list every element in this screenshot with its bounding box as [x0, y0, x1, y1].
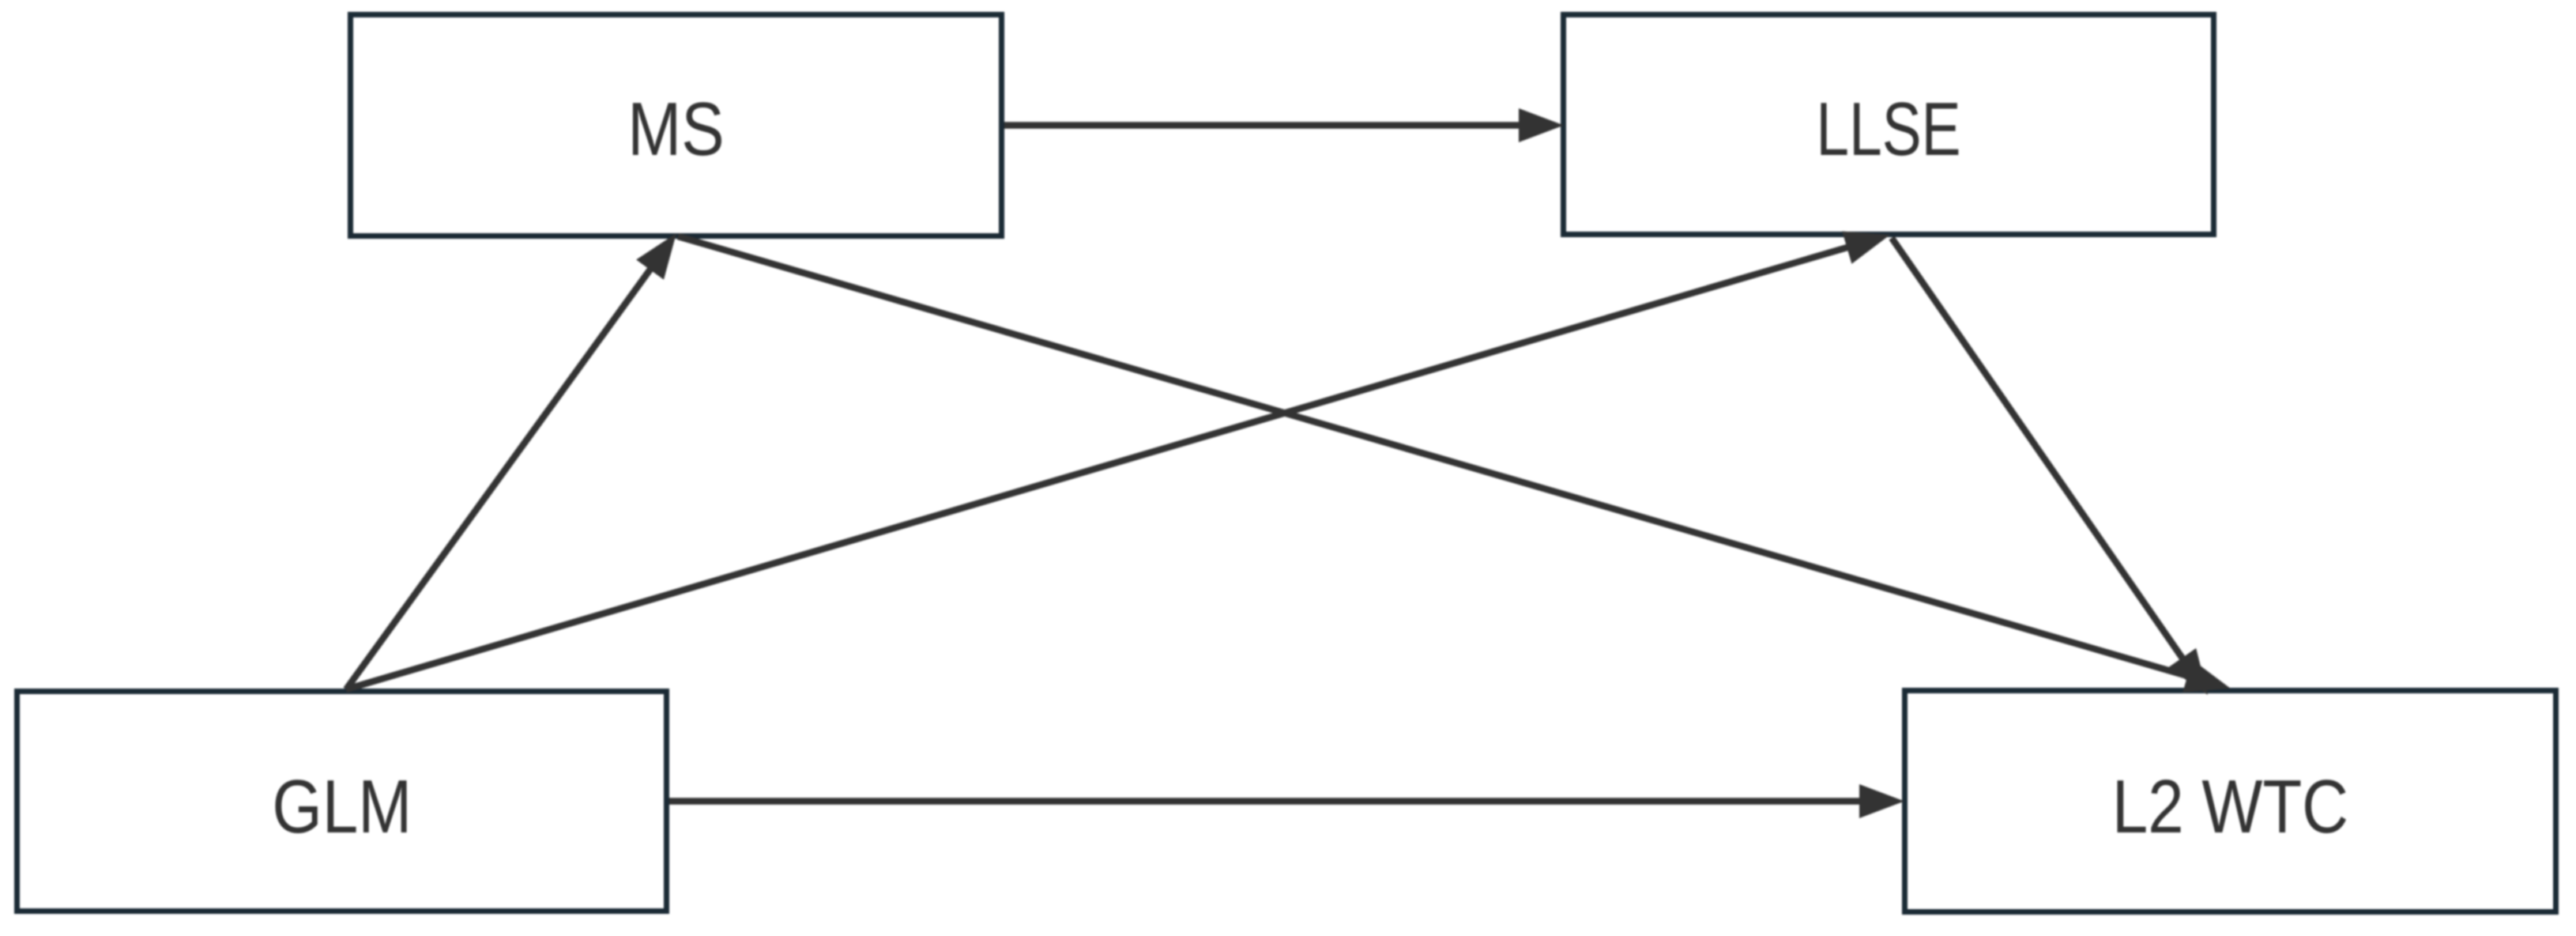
box GLM — [17, 692, 667, 911]
svg-text:L2 WTC: L2 WTC — [2112, 764, 2348, 849]
wire GLM to LLSE — [346, 232, 1890, 690]
svg-text:LLSE: LLSE — [1816, 87, 1960, 172]
wire GLM to L2WTC — [669, 784, 1904, 818]
svg-text:GLM: GLM — [272, 764, 412, 849]
box LLSE — [1564, 15, 2214, 235]
box MS — [351, 15, 1002, 236]
wire MS to L2WTC — [678, 236, 2231, 693]
wire GLM to MS — [346, 233, 676, 689]
box L2WTC — [1905, 691, 2556, 912]
svg-text:MS: MS — [627, 86, 724, 172]
wire LLSE to L2WTC — [1892, 238, 2208, 695]
wire MS to LLSE — [1004, 108, 1564, 142]
